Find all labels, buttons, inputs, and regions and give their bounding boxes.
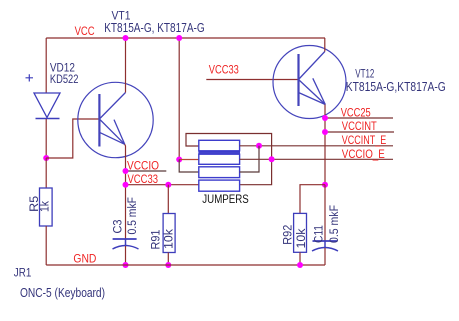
wire VCC25 line (325, 117, 393, 119)
wire VT12 collector riser (324, 38, 326, 52)
capacitor C3 (113, 239, 139, 249)
diode VD12 (34, 93, 60, 119)
wire VCC33 line (126, 184, 199, 186)
junction VT1 collector on VCC rail (123, 35, 129, 41)
svg-text:GND: GND (73, 254, 96, 266)
junction VCC33 on emitter wire (123, 182, 129, 188)
resistor R92 (294, 213, 307, 252)
svg-text:R92: R92 (283, 225, 295, 245)
svg-text:R91: R91 (151, 230, 163, 250)
wire row3 left jog (179, 160, 199, 173)
junction VCC33/R92 on right vertical (322, 182, 328, 188)
svg-text:VCC33: VCC33 (209, 65, 239, 77)
wire VCCIO stub (126, 170, 167, 172)
wire row2 right line to VCCIO_E (240, 158, 393, 160)
svg-text:JUMPERS: JUMPERS (202, 194, 249, 206)
transistor Q VT12 (273, 46, 346, 119)
jumper block JUMPERS (199, 140, 240, 191)
junction VCCIO on emitter wire (123, 168, 129, 174)
wire jumper feed from VCC rail (178, 38, 180, 160)
junction R92 on GND rail (297, 262, 303, 268)
junction row2 branch (176, 157, 182, 163)
svg-text:JR1: JR1 (14, 265, 32, 279)
wire R92 to GND rail (299, 252, 301, 265)
svg-text:KT815A-G, KT817A-G: KT815A-G, KT817A-G (104, 21, 205, 35)
svg-text:KD522: KD522 (50, 72, 79, 86)
wire C3 to GND rail (125, 246, 127, 265)
junction R91 on GND rail (165, 262, 171, 268)
wire diode cathode to junction (45, 119, 47, 158)
svg-text:C3: C3 (112, 220, 124, 234)
svg-text:10k: 10k (164, 229, 176, 249)
capacitor C11 (312, 241, 338, 251)
svg-text:VCCINT_E: VCCINT_E (342, 135, 387, 147)
resistor R5 (40, 188, 53, 226)
wire VT1 emitter descender (124, 144, 127, 239)
wire row1 left loop (186, 134, 272, 185)
svg-text:0.5 mkF: 0.5 mkF (329, 205, 341, 243)
wire VT1 collector riser (125, 38, 127, 93)
wire left branch from VCC rail to diode (45, 38, 47, 93)
wire VT12 base (206, 79, 298, 81)
wire C11 to GND rail (324, 248, 326, 265)
resistor R91 (163, 214, 175, 253)
svg-text:KT815A-G,KT817A-G: KT815A-G,KT817A-G (346, 80, 446, 94)
wire VCC top rail (46, 37, 325, 39)
plus polarity mark (26, 74, 34, 81)
wire VT1 base path (46, 119, 99, 158)
junction jumper feed on VCC rail (176, 35, 182, 41)
wire R91 to GND rail (167, 253, 169, 266)
wire row3 right jog (240, 146, 259, 172)
wire VT12 emitter / right vertical (324, 105, 326, 185)
junction C3 on GND rail (123, 262, 129, 268)
svg-text:1k: 1k (40, 201, 52, 212)
svg-text:VCC: VCC (75, 26, 95, 38)
wire C11 descender (324, 185, 326, 241)
svg-text:10k: 10k (296, 228, 308, 248)
junction R91 on VCC33 line (165, 182, 171, 188)
junction VCC25 (322, 115, 328, 121)
svg-text:VT12: VT12 (355, 69, 374, 81)
wire R91 riser (167, 185, 169, 214)
transistor Q VT1 (78, 82, 153, 157)
svg-text:VCCINT: VCCINT (342, 121, 377, 133)
wire VCCINT line (325, 131, 394, 133)
junction diode/R5/base (43, 155, 49, 161)
junction row2 right / loop vertical (269, 156, 275, 162)
wire GND rail (46, 264, 325, 266)
wire R5 to GND rail (45, 226, 47, 265)
svg-text:0.5 mkF: 0.5 mkF (127, 197, 139, 235)
wire row1 right line to VCCINT_E (240, 145, 393, 147)
wire R92 link (300, 185, 325, 214)
wire junction to R5 (45, 158, 47, 188)
svg-text:C11: C11 (313, 225, 325, 243)
svg-text:ONC-5 (Keyboard): ONC-5 (Keyboard) (20, 286, 105, 300)
wire row2 left stub (179, 159, 199, 161)
svg-text:VCCIO_E: VCCIO_E (342, 149, 385, 161)
junction row1 branch (256, 143, 262, 149)
junction VCCINT (322, 129, 328, 135)
